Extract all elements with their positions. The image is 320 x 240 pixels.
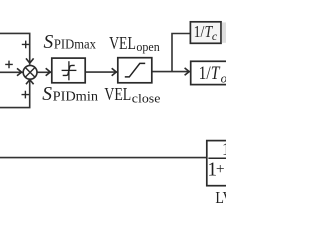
svg-text:c: c <box>212 29 218 43</box>
wire bottom feedback elbow into summer <box>0 80 30 108</box>
svg-text:S: S <box>42 84 52 105</box>
1/Tc box <box>190 22 221 44</box>
svg-text:open: open <box>136 39 160 54</box>
arrowhead up into summer <box>26 80 34 85</box>
limiter box <box>52 58 85 83</box>
plus sign bottom input <box>22 91 30 99</box>
svg-text:LVDT: LVDT <box>215 188 226 207</box>
svg-text:+: + <box>216 161 225 178</box>
rate limiter box <box>118 58 152 83</box>
svg-text:close: close <box>132 91 161 106</box>
wire summer to limiter <box>37 71 51 73</box>
svg-text:PIDmax: PIDmax <box>54 37 96 52</box>
wire top input elbow into summer <box>0 33 30 64</box>
plus sign top input <box>22 41 30 49</box>
wire branch up to 1/Tc <box>172 34 190 72</box>
svg-text:1/T: 1/T <box>194 22 214 41</box>
wire long bottom line into LVDT block <box>0 157 207 159</box>
gray band right of 1/Tc box <box>222 22 226 42</box>
1/To box <box>191 61 228 84</box>
wire left input into summer <box>0 71 23 73</box>
LVDT transfer function box <box>207 141 236 186</box>
svg-text:PIDmin: PIDmin <box>53 89 99 104</box>
svg-text:VEL: VEL <box>104 84 131 104</box>
summing junction circle with X <box>23 65 37 79</box>
svg-text:1/T: 1/T <box>199 64 221 84</box>
svg-text:VEL: VEL <box>109 33 136 53</box>
wire rate limiter to 1/To <box>152 71 190 73</box>
svg-text:S: S <box>44 32 54 53</box>
arrowhead into rate limiter box <box>112 68 117 75</box>
fraction bar <box>208 157 226 159</box>
svg-text:o: o <box>221 70 226 85</box>
arrowhead into limiter box <box>46 68 51 75</box>
svg-text:1: 1 <box>222 139 226 159</box>
arrowhead right into summer <box>17 68 22 75</box>
rate limiter symbol <box>125 63 145 77</box>
plus sign left input <box>5 61 13 69</box>
limiter saturation symbol <box>62 61 77 80</box>
arrowhead down into summer <box>26 58 34 63</box>
arrowhead into 1/To box <box>185 68 190 75</box>
wire limiter to rate limiter <box>85 71 117 73</box>
